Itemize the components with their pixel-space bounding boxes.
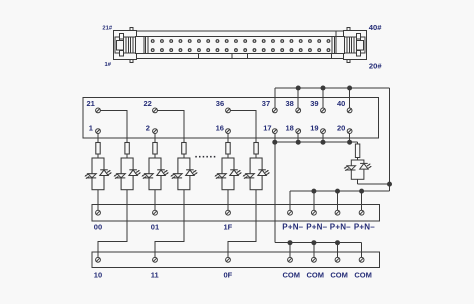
svg-text:P+N–: P+N– (354, 223, 375, 232)
svg-text:0F: 0F (224, 270, 233, 279)
svg-text:38: 38 (286, 99, 294, 108)
svg-text:20: 20 (337, 123, 345, 132)
svg-text:36: 36 (216, 99, 224, 108)
svg-text:21: 21 (87, 99, 95, 108)
svg-text:19: 19 (310, 123, 318, 132)
svg-text:P+N–: P+N– (306, 223, 327, 232)
svg-text:18: 18 (286, 123, 294, 132)
svg-text:1: 1 (89, 123, 93, 132)
svg-text:40: 40 (337, 99, 345, 108)
svg-text:37: 37 (262, 99, 270, 108)
svg-text:22: 22 (144, 99, 152, 108)
svg-text:P+N–: P+N– (282, 223, 303, 232)
svg-text:40#: 40# (369, 23, 382, 32)
svg-text:01: 01 (151, 223, 159, 232)
svg-text:COM: COM (330, 270, 348, 279)
svg-text:P+N–: P+N– (330, 223, 351, 232)
svg-text:COM: COM (283, 270, 301, 279)
svg-text:39: 39 (310, 99, 318, 108)
svg-text:20#: 20# (369, 61, 382, 70)
svg-text:17: 17 (263, 123, 271, 132)
svg-text:10: 10 (94, 270, 102, 279)
svg-text:1#: 1# (105, 62, 112, 68)
svg-text:1F: 1F (224, 223, 233, 232)
svg-text:COM: COM (307, 270, 325, 279)
svg-text:2: 2 (146, 123, 150, 132)
svg-text:16: 16 (216, 123, 224, 132)
svg-text:21#: 21# (102, 25, 112, 31)
svg-text:00: 00 (94, 223, 102, 232)
svg-text:11: 11 (151, 270, 159, 279)
svg-text:COM: COM (354, 270, 372, 279)
